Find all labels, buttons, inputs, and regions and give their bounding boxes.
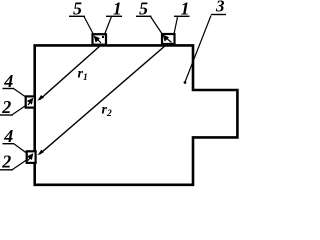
svg-text:4: 4 — [3, 71, 13, 91]
svg-text:2: 2 — [1, 97, 11, 117]
svg-text:5: 5 — [139, 0, 148, 18]
svg-text:5: 5 — [73, 0, 82, 18]
svg-text:1: 1 — [181, 0, 190, 18]
svg-text:4: 4 — [3, 126, 13, 146]
svg-text:1: 1 — [113, 0, 122, 18]
svg-text:3: 3 — [215, 0, 225, 16]
svg-text:2: 2 — [1, 152, 11, 172]
